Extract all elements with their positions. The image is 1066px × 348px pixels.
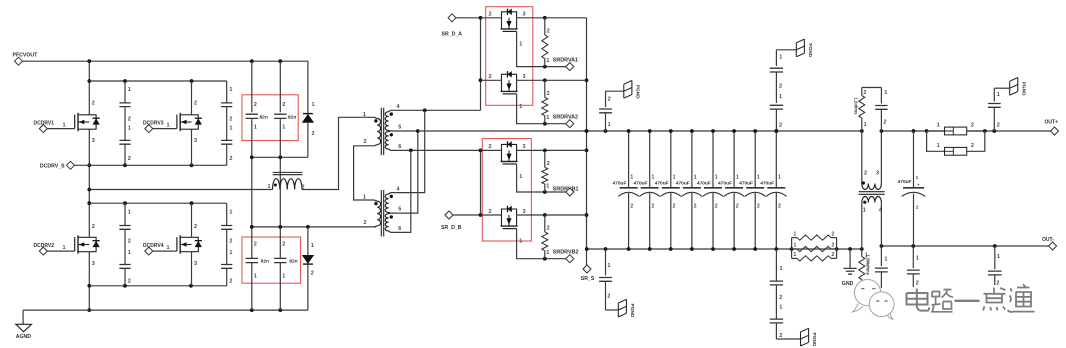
svg-text:6: 6 [398,226,401,232]
svg-text:2: 2 [863,90,866,96]
wire phase rail [89,189,272,191]
svg-text:OUT+: OUT+ [1045,120,1059,126]
svg-text:SRDRVA2: SRDRVA2 [553,114,578,120]
svg-text:2: 2 [229,239,232,245]
svg-text:1: 1 [607,263,610,269]
svg-text:3: 3 [876,170,879,176]
svg-text:2: 2 [364,139,367,145]
wire SR drain Q8 [481,214,502,216]
svg-text:470uF: 470uF [697,180,711,186]
svg-text:1: 1 [916,175,919,181]
svg-text:1: 1 [229,210,232,216]
svg-text:2: 2 [311,271,314,277]
resistor gate SRDRVA2 [544,80,546,97]
inductor L1 [273,179,303,190]
svg-text:1: 1 [282,274,285,280]
capacitor 82n upper x280.3 [279,61,281,112]
svg-text:1: 1 [780,266,783,272]
svg-text:82n: 82n [261,259,269,265]
capacitor C994 [993,88,995,101]
svg-text:470uF: 470uF [676,180,690,186]
capacitor 82n lower x251.8 [251,227,253,259]
svg-text:1: 1 [519,239,522,245]
inductor T3 choke [861,131,863,184]
svg-text:2: 2 [229,156,232,162]
svg-text:SR_S: SR_S [581,276,595,282]
resistor gate SRDRVB1 [544,150,546,167]
svg-text:2: 2 [282,242,285,248]
svg-text:2: 2 [607,294,610,300]
red box snubber upper [242,95,298,141]
wire rail DCDRV_S [75,164,227,166]
svg-text:5: 5 [398,124,401,130]
svg-text:2: 2 [715,204,718,210]
svg-text:SR_D_A: SR_D_A [442,31,463,37]
svg-text:470uF: 470uF [760,180,774,186]
svg-text:1: 1 [652,175,655,181]
logo text 点 [983,288,1006,311]
wire left leg vertical [88,61,90,115]
svg-text:2: 2 [916,281,919,287]
svg-text:2: 2 [864,170,867,176]
red box snubber lower [242,237,301,283]
capacitor C881 bottom [880,246,882,266]
svg-text:3: 3 [92,261,95,267]
svg-text:3: 3 [523,209,526,215]
svg-text:2: 2 [997,122,1000,128]
junction node snubber mid [252,156,308,158]
svg-text:1: 1 [673,175,676,181]
logo text 通 [1008,284,1035,312]
capacitor C605 top [605,91,607,107]
svg-text:2: 2 [779,84,782,90]
svg-text:1: 1 [884,257,887,263]
resistor bank 3x parallel [791,238,793,259]
svg-text:2: 2 [608,96,611,102]
svg-text:2: 2 [489,74,492,80]
svg-text:DCDRV_S: DCDRV_S [40,163,65,169]
svg-text:1: 1 [128,250,131,256]
wire SR drain Q7 [481,149,502,151]
svg-text:2: 2 [694,204,697,210]
wire SR A left rail [480,18,482,111]
capacitor C605 bottom [605,249,607,276]
capacitor C913 bottom [912,246,914,268]
svg-text:1: 1 [311,243,314,249]
fuse F1 [927,130,945,132]
svg-text:1: 1 [757,175,760,181]
resistor R damp [861,88,863,96]
svg-text:SR_D_B: SR_D_B [441,225,462,231]
power flag PGND 5 [994,87,1009,89]
svg-text:SRDRVB2: SRDRVB2 [553,249,579,255]
svg-text:2: 2 [128,279,131,285]
svg-text:1: 1 [229,250,232,256]
svg-text:2: 2 [883,120,886,126]
svg-text:2: 2 [229,279,232,285]
svg-text:2: 2 [832,243,835,249]
svg-text:1: 1 [282,125,285,131]
svg-text:+: + [917,183,920,188]
svg-text:AGND: AGND [16,334,32,340]
svg-text:PGND: PGND [1020,82,1026,96]
svg-text:PGND: PGND [629,304,635,318]
svg-text:1: 1 [312,102,315,108]
wire T1.5 output rail segment [391,130,418,132]
svg-text:1: 1 [997,92,1000,98]
svg-text:1: 1 [229,87,232,93]
svg-text:1: 1 [779,54,782,60]
svg-text:1: 1 [694,175,697,181]
wire SR source Q8 [517,214,587,216]
svg-text:1.2ohms: 1.2ohms [854,98,859,116]
svg-text:5: 5 [398,207,401,213]
capacitor pair x776 bottom [775,249,777,281]
svg-text:1: 1 [884,90,887,96]
wire SR right rail [586,18,588,249]
svg-text:1: 1 [546,184,549,190]
svg-text:3: 3 [194,261,197,267]
svg-text:470uF: 470uF [634,180,648,186]
svg-text:1: 1 [128,210,131,216]
capacitor 82n upper x251.8 [251,61,253,112]
svg-text:2: 2 [778,204,781,210]
transistor Q1 DCDRV1 [75,113,100,131]
red box SR B [482,139,531,242]
power flag PGND 3 [606,309,619,311]
svg-text:1: 1 [128,126,131,132]
wire T1.2 to T2.1 [354,146,375,200]
svg-text:GND: GND [842,281,854,287]
svg-text:2: 2 [736,204,739,210]
svg-text:2: 2 [971,143,974,149]
diode D1 [307,61,309,113]
svg-text:1: 1 [363,112,366,118]
svg-text:1: 1 [167,245,170,251]
svg-text:2: 2 [229,117,232,123]
svg-text:1: 1 [937,123,940,129]
power flag PGND 1 [606,90,624,92]
svg-text:470uF: 470uF [655,180,669,186]
svg-text:2: 2 [832,231,835,237]
svg-text:1: 1 [794,231,797,237]
transistor Q7 SRDRVB [501,141,518,164]
transformer T1 [377,119,380,145]
svg-text:2: 2 [547,161,550,167]
wire SR source Q5 [517,17,587,19]
wire output rail bottom [587,248,862,250]
svg-text:1: 1 [519,174,522,180]
wire T1.6 net SR_D_B [391,149,481,151]
svg-text:2: 2 [832,252,835,258]
capacitor C994 bottom [994,246,996,269]
svg-text:1: 1 [254,125,257,131]
resistor R 1.2Mohms [861,249,863,257]
power flag PGND 2 [776,49,796,51]
capacitor 82n lower x280.3 [279,227,281,259]
svg-text:1: 1 [864,122,867,128]
transistor Q6 SRDRVA [501,71,518,94]
wire top rail PFCVOUT [26,60,308,62]
wire SR source Q6 [517,79,587,81]
svg-text:1: 1 [167,122,170,128]
svg-text:3: 3 [92,138,95,144]
svg-text:82n: 82n [289,259,297,265]
wire lower source rail [89,285,226,287]
capacitor C 470uF output [913,131,915,188]
svg-text:2: 2 [194,224,197,230]
svg-text:2: 2 [254,242,257,248]
svg-text:2: 2 [971,123,974,129]
svg-text:1: 1 [794,243,797,249]
capacitor pair lower cell col B [226,203,228,225]
resistor gate SRDRVB2 [544,215,546,232]
resistor gate SRDRVA1 [544,18,546,35]
svg-text:1.2Mohms: 1.2Mohms [865,255,870,276]
svg-text:1: 1 [736,175,739,181]
svg-text:470uF: 470uF [613,180,627,186]
svg-text:2: 2 [757,204,760,210]
svg-text:1: 1 [519,41,522,47]
wire gate Q8 [517,229,566,259]
wire snubber lower node [252,226,376,228]
svg-text:1: 1 [778,175,781,181]
transistor Q5 SRDRVA [501,9,518,32]
wire output rail bottom right [881,245,1048,247]
svg-text:470uF: 470uF [739,180,753,186]
transistor Q4 DCDRV4 [177,235,202,253]
svg-text:4: 4 [879,207,883,213]
svg-text:2: 2 [92,224,95,230]
wire AGND rail [23,309,308,311]
svg-text:2: 2 [547,226,550,232]
svg-text:2: 2 [489,144,492,150]
svg-text:SRDRVA1: SRDRVA1 [553,57,578,63]
capacitor pair lower cell col A [124,203,126,225]
capacitor pair upper cell col A [124,81,126,103]
svg-text:1: 1 [254,274,257,280]
svg-text:2: 2 [92,101,95,107]
port SR_S [586,249,588,265]
svg-text:3: 3 [194,138,197,144]
transformer T2 [377,201,380,226]
svg-text:2: 2 [128,117,131,123]
wire lower drain rail [89,202,226,204]
wire T1.4 net SR_D_A [391,109,481,111]
wire gate Q7 [517,164,566,192]
svg-text:1: 1 [546,58,549,64]
svg-text:PFCVOUT: PFCVOUT [13,53,39,59]
ground AGND [22,310,24,324]
wire SR drain Q5 [481,17,502,19]
svg-text:1: 1 [937,143,940,149]
logo text 电 [907,289,930,311]
svg-text:1: 1 [229,126,232,132]
svg-text:PGND: PGND [811,333,817,347]
svg-text:1: 1 [546,115,549,121]
wire gate Q5 [517,31,566,66]
fuse F2 [927,131,945,151]
svg-text:1: 1 [997,254,1000,260]
wire output rail top [418,130,862,132]
wire T2.5 riser [391,131,418,213]
ground GND [849,249,851,268]
transistor Q8 SRDRVB [501,206,518,229]
svg-text:2: 2 [254,102,257,108]
wire SR drain Q6 [481,79,502,81]
svg-text:4: 4 [397,104,401,110]
svg-text:4: 4 [397,186,401,192]
logo text 路 [931,290,953,312]
svg-text:2: 2 [779,123,782,129]
wire T2.6 riser [391,150,411,232]
svg-text:3: 3 [523,12,526,18]
svg-text:1: 1 [128,87,131,93]
svg-text:6: 6 [398,144,401,150]
logo speech bubble 1 [853,304,864,313]
svg-text:2: 2 [652,204,655,210]
svg-text:1: 1 [268,184,271,190]
svg-text:82n: 82n [288,115,296,121]
svg-text:1: 1 [715,175,718,181]
capacitor bank 470uF x8 [628,131,630,188]
transistor Q3 DCDRV2 [75,235,100,253]
svg-text:82n: 82n [260,115,268,121]
svg-text:1: 1 [608,122,611,128]
svg-text:2: 2 [630,204,633,210]
svg-text:2: 2 [364,220,367,226]
transistor Q2 DCDRV3 [177,113,202,131]
wire SR source Q7 [517,149,587,151]
wire L1 to T1 primary [302,117,374,189]
svg-text:PGND: PGND [807,43,813,57]
svg-text:DCDRV3: DCDRV3 [143,120,164,126]
svg-text:1: 1 [63,122,66,128]
svg-text:2: 2 [779,333,782,339]
svg-text:2: 2 [673,204,676,210]
svg-text:1: 1 [794,252,797,258]
capacitor pair upper cell col B [226,81,228,103]
svg-text:1: 1 [630,175,633,181]
power flag PGND 4 [776,338,800,340]
svg-text:2: 2 [282,102,285,108]
svg-text:2: 2 [312,131,315,137]
svg-text:1: 1 [519,104,522,110]
svg-text:470uF: 470uF [718,180,732,186]
svg-text:2: 2 [128,239,131,245]
logo speech bubble 2 [888,313,893,319]
svg-text:1: 1 [779,305,782,311]
svg-text:2: 2 [489,12,492,18]
diode D2 [307,227,309,255]
svg-text:3: 3 [523,144,526,150]
svg-text:DCDRV4: DCDRV4 [143,243,164,249]
svg-text:PGND: PGND [634,85,640,99]
svg-text:1: 1 [546,250,549,256]
svg-text:2: 2 [547,28,550,34]
svg-text:2: 2 [779,295,782,301]
svg-text:2: 2 [489,209,492,215]
red box SR A [486,7,533,106]
svg-text:1: 1 [916,256,919,262]
svg-text:2: 2 [194,101,197,107]
svg-text:3: 3 [523,74,526,80]
wire upper drain rail [89,80,226,82]
svg-text:2: 2 [547,91,550,97]
wire SR B left rail [480,150,482,215]
svg-text:1: 1 [863,207,866,213]
svg-text:SRDRVB1: SRDRVB1 [553,186,579,192]
svg-text:2: 2 [128,156,131,162]
capacitor C damp [862,87,882,89]
wire T2.4 riser [391,110,425,192]
svg-text:1: 1 [63,245,66,251]
svg-text:1: 1 [779,94,782,100]
capacitor pair x777 top [775,50,777,66]
svg-text:470uF: 470uF [898,179,912,185]
wire gate Q6 [517,94,566,124]
wire output rail top right [881,130,944,132]
svg-text:2: 2 [916,205,919,211]
logo text 一 [955,298,980,304]
